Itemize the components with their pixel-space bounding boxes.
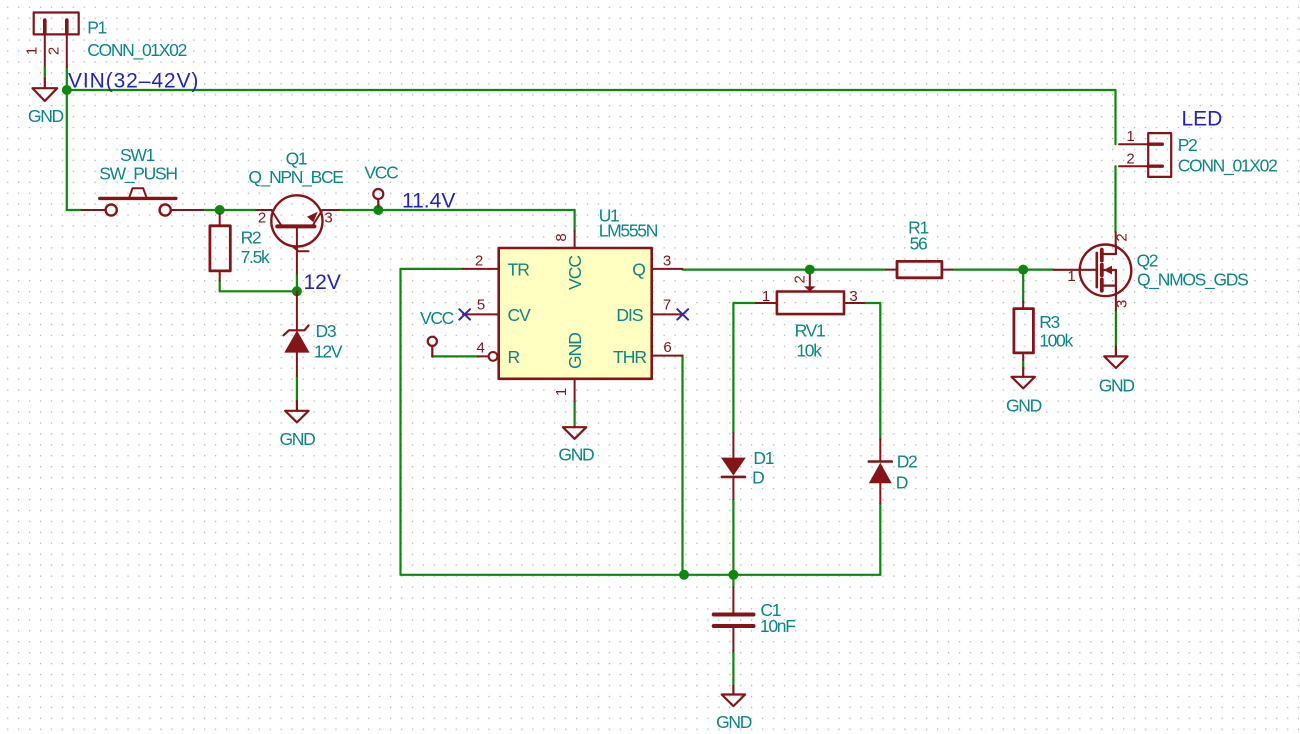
capacitor C1 [714,587,754,651]
no-connect X on pin 5 [459,309,470,319]
diode D2 [869,439,892,503]
potentiometer RV1 [756,275,864,314]
svg-text:Q2: Q2 [1137,251,1158,271]
zener diode D3 [284,291,310,376]
wire D3 to GND (green segment) [296,376,298,401]
svg-text:56: 56 [910,234,927,254]
wire SW1 left stub [67,209,82,211]
svg-text:LM555N: LM555N [599,221,658,241]
connector P1 [34,13,79,68]
svg-text:10nF: 10nF [760,616,795,636]
svg-text:VCC: VCC [420,308,454,328]
wire D2 bottom to bottom run [879,503,881,574]
wire top-right drop to P2 pin 1 [1114,90,1116,144]
junction RV1 wiper node [805,265,815,275]
svg-text:2: 2 [792,275,809,283]
wire VCC stub to R pin [432,355,478,357]
junction VCC node [373,205,383,215]
svg-text:R2: R2 [241,227,261,247]
svg-text:1: 1 [762,288,770,305]
wire D1 bottom to bottom run [732,499,734,575]
pin 3 (Q) of U1 [652,268,683,270]
ground under Q2 [1104,347,1127,368]
svg-text:2: 2 [1114,233,1131,241]
svg-text:D: D [752,468,764,488]
svg-text:1: 1 [1126,128,1134,145]
wire Q1 pin3 to pin8 of U1 [339,209,575,211]
wire TR loop: pin2 left, down, bottom run [401,269,881,575]
svg-text:CV: CV [508,305,532,325]
svg-text:D3: D3 [316,321,336,341]
svg-text:R: R [508,347,520,367]
svg-text:THR: THR [613,347,646,367]
svg-text:D: D [896,473,908,493]
svg-text:3: 3 [1114,300,1131,308]
pin 2 (TR) of U1 [463,268,499,270]
wire RV1 pin1 to D1 branch [733,303,756,433]
wire C1 bottom to GND [732,651,734,685]
junction 12V node [292,286,302,296]
svg-text:Q: Q [632,259,645,279]
svg-text:SW_PUSH: SW_PUSH [99,164,177,185]
power symbol VCC at R pin [428,337,437,357]
switch SW1 [82,188,203,215]
svg-text:2: 2 [258,210,266,227]
svg-text:VIN(32–42V): VIN(32–42V) [68,70,199,93]
svg-text:7: 7 [663,297,671,314]
junction R3/gate node [1018,265,1028,275]
svg-text:D1: D1 [753,448,773,468]
wire Q2 source green segment [1115,310,1117,346]
svg-text:GND: GND [28,106,64,126]
junction SW1/R2 node [215,205,225,215]
wire Q1 bottom to 12V node [296,274,298,292]
IC U1 LM555N [499,248,652,379]
ground under C1 [722,686,745,707]
pin 1 (GND) of U1 [574,379,576,402]
wire THR pin down to bottom run [681,356,683,575]
pin 5 (CV) of U1 [463,313,499,315]
svg-text:6: 6 [663,339,671,356]
svg-text:SW1: SW1 [120,145,155,165]
svg-text:GND: GND [1099,375,1135,395]
no-connect X on pin 7 [677,309,688,319]
svg-text:DIS: DIS [616,305,643,325]
svg-text:5: 5 [477,297,485,314]
wire P2 pin2 down to Q2 drain [1114,166,1116,232]
svg-text:11.4V: 11.4V [402,190,455,213]
svg-text:10k: 10k [796,341,822,361]
wire bottom node to C1 [732,575,734,587]
svg-text:1: 1 [1067,268,1075,285]
svg-text:D2: D2 [897,452,917,472]
svg-text:2: 2 [1126,150,1134,167]
svg-text:GND: GND [280,429,316,449]
resistor R1 [886,261,952,277]
svg-text:CONN_01X02: CONN_01X02 [1178,156,1277,177]
svg-text:Q1: Q1 [286,149,307,169]
wire P1 pin1 to GND (green bit) [44,67,46,78]
junction VIN node [62,85,72,95]
svg-text:TR: TR [508,259,530,279]
svg-text:LED: LED [1182,107,1223,130]
svg-text:100k: 100k [1039,331,1073,351]
ground under R3 [1012,368,1035,389]
svg-text:GND: GND [716,712,752,732]
wire RV1 pin3 to D2 branch [864,303,880,439]
ground under D3 [285,401,308,422]
svg-text:2: 2 [46,47,63,55]
wire R2 bottom to Q1 emitter node [219,281,221,292]
svg-text:GND: GND [565,333,585,369]
pin 4 (R) of U1 with bubble [478,355,489,357]
svg-text:8: 8 [553,233,570,241]
wire R3 bottom green segment [1022,360,1024,368]
svg-text:GND: GND [1006,396,1042,416]
svg-text:7.5k: 7.5k [241,247,270,267]
svg-text:R3: R3 [1039,312,1059,332]
ground under U1 [563,427,586,439]
power symbol VCC [373,189,383,207]
svg-text:P1: P1 [87,18,106,38]
svg-text:VCC: VCC [364,163,398,183]
pin 8 (VCC) of U1 [574,231,576,248]
svg-text:3: 3 [849,288,857,305]
svg-text:Q_NPN_BCE: Q_NPN_BCE [248,167,343,188]
svg-text:1: 1 [24,47,41,55]
svg-text:12V: 12V [314,342,343,362]
pin 7 (DIS) of U1 [652,313,683,315]
svg-text:2: 2 [475,253,483,270]
svg-text:VCC: VCC [565,256,585,290]
svg-text:12V: 12V [304,271,341,294]
ground under P1 [33,79,58,102]
wire SW1 right to Q1 base [203,209,256,211]
wire left vertical from P1 pin 2 down to SW1 [66,67,68,210]
svg-text:GND: GND [558,445,594,465]
diode D1 [721,433,746,499]
svg-text:1: 1 [553,388,570,396]
svg-text:3: 3 [324,210,332,227]
pin 6 (THR) of U1 [652,355,683,357]
junction THR bottom node [679,570,689,580]
svg-text:RV1: RV1 [795,321,825,341]
wire VIN top horizontal [67,89,1116,91]
svg-text:P2: P2 [1178,135,1197,155]
transistor Q1 [256,195,339,273]
junction C1 bottom node [728,570,738,580]
svg-text:CONN_01X02: CONN_01X02 [87,40,186,61]
wire U1 pin1 to GND [573,401,575,427]
connector P2 [1119,133,1171,177]
resistor R3 [1014,302,1034,361]
svg-text:3: 3 [663,253,671,270]
svg-text:4: 4 [477,340,485,357]
svg-text:Q_NMOS_GDS: Q_NMOS_GDS [1137,270,1248,291]
resistor R2 [210,214,230,281]
wire R3 node down [1022,270,1024,302]
MOSFET Q2 [1054,232,1132,310]
wire Q output run to Q2 gate [683,269,887,271]
